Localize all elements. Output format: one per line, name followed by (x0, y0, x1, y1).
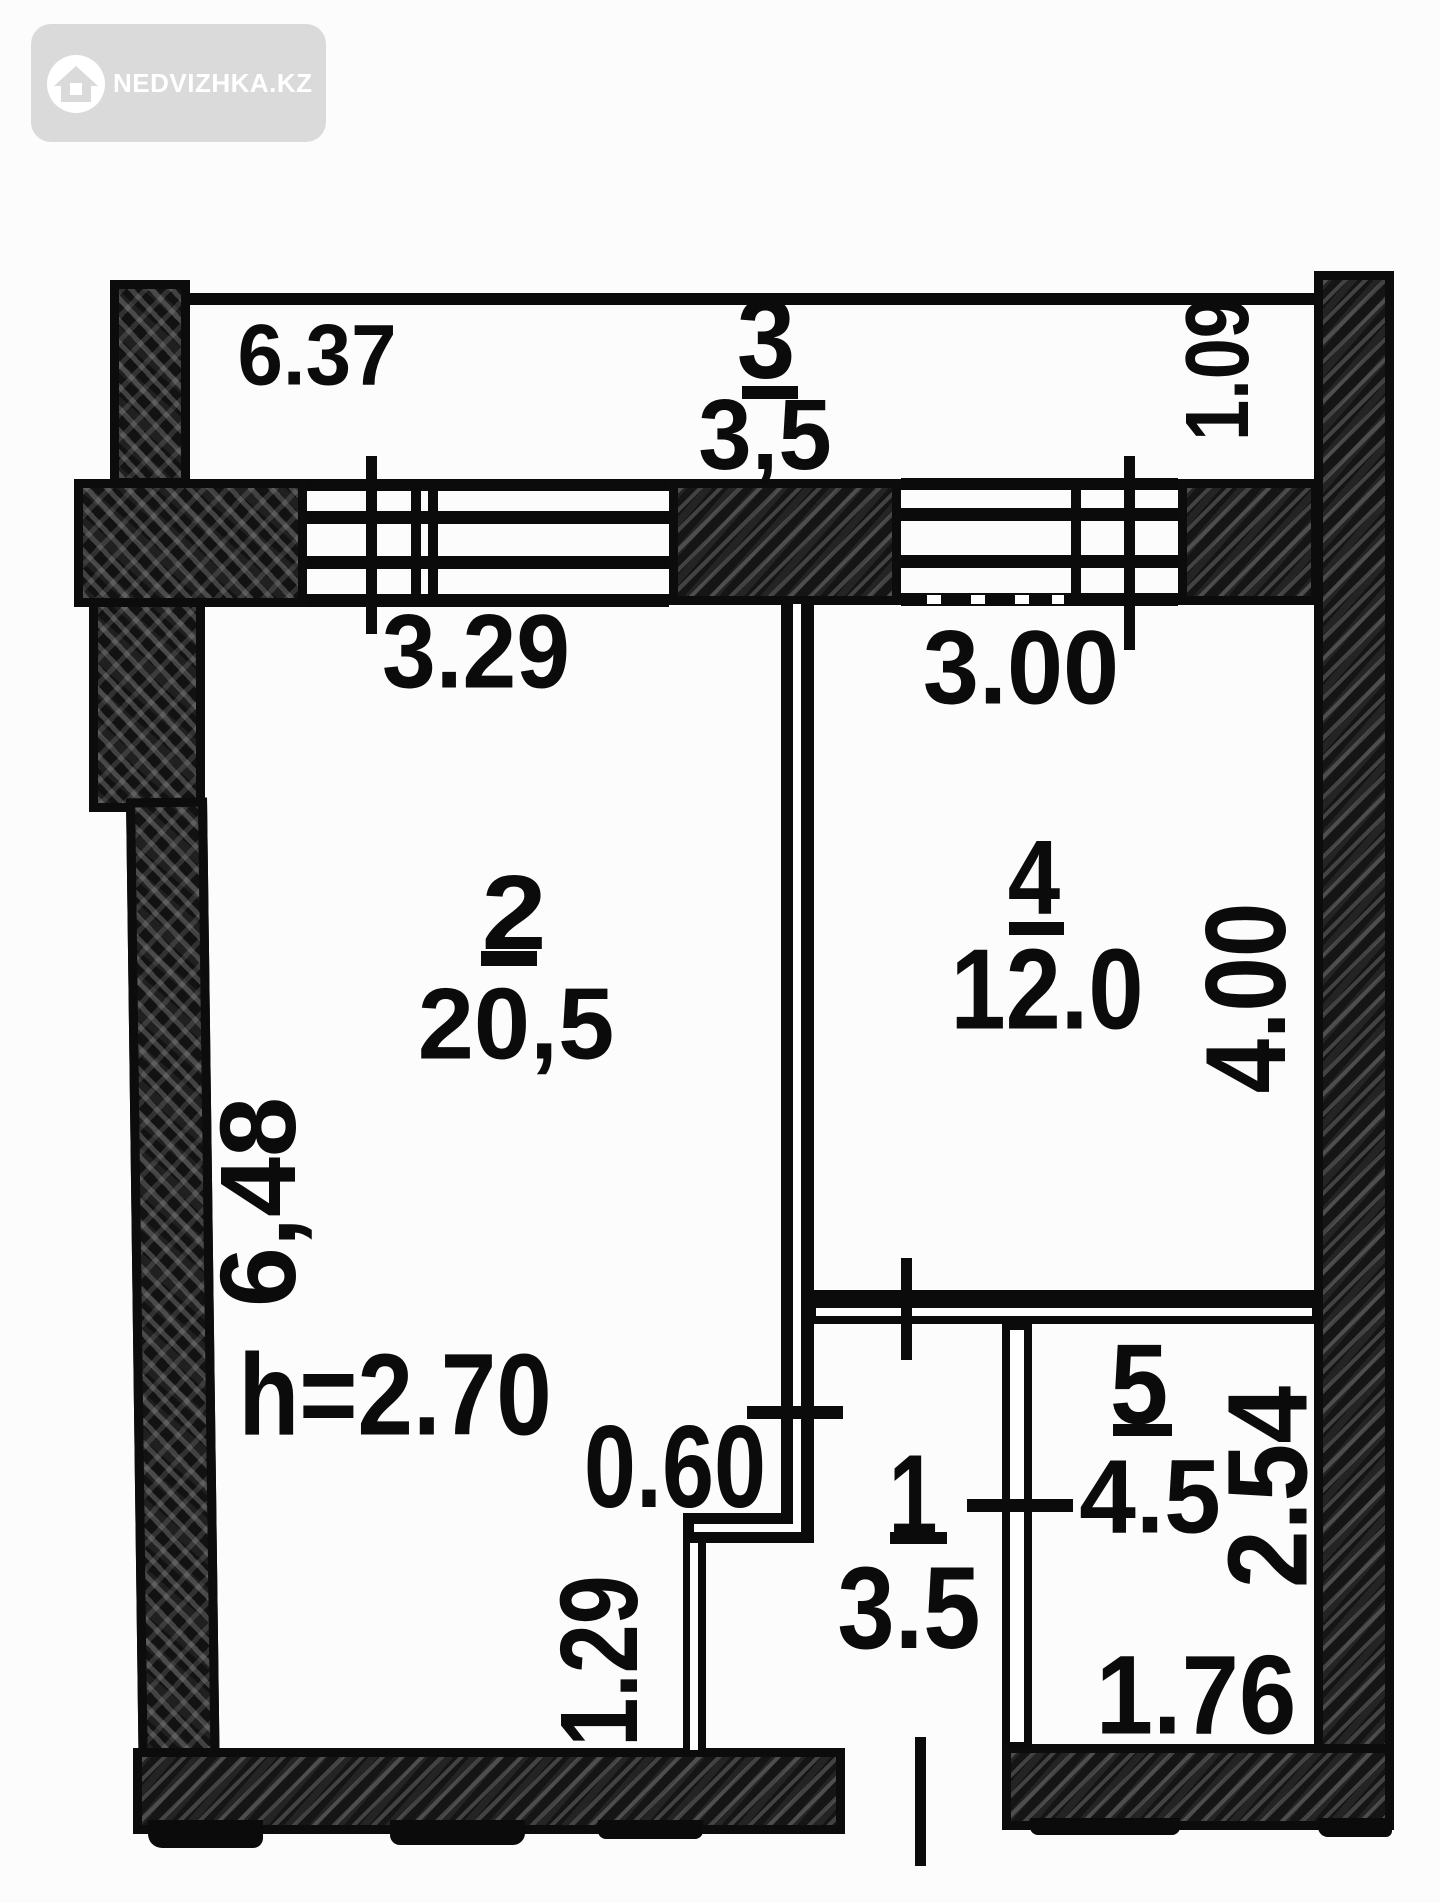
label 1.76 (1096, 1640, 1297, 1752)
window W1 lines (307, 479, 669, 491)
wall: band left block (74, 479, 307, 607)
wall: band right block (1178, 479, 1320, 605)
label 20,5 (418, 974, 615, 1075)
underline room 3 (742, 386, 798, 399)
label 3.29 (382, 599, 570, 704)
label 3.5 hall (837, 1549, 980, 1666)
wall: hall top (room4 | hall) (802, 1290, 1320, 1324)
dim tick 3.29 left (366, 456, 377, 634)
logo text (113, 68, 313, 99)
window W2 lines (901, 478, 1178, 490)
underline room 4 (1009, 922, 1064, 935)
label 0.60 (584, 1408, 766, 1525)
wall: left lower (after notch) (126, 797, 220, 1763)
label 2.54 (vertical) (1212, 1386, 1325, 1588)
label 1.29 (vertical) (545, 1575, 655, 1746)
label room 4 (1008, 825, 1060, 931)
wall: middle pier (669, 479, 901, 605)
tick on hall|room5 wall (967, 1499, 1073, 1512)
underline room 5 (1113, 1424, 1172, 1436)
tick 0.60 on divider (747, 1406, 843, 1419)
wall: bottom right segment (1002, 1744, 1394, 1830)
white corner join of step (793, 1513, 801, 1532)
wall: top-left column (110, 280, 190, 487)
door tick at entrance (915, 1737, 926, 1866)
wall: step vertical (683, 1543, 706, 1757)
label 4.00 (vertical) (1190, 903, 1304, 1094)
label room 1 (888, 1437, 937, 1553)
label 3,5 (698, 385, 831, 485)
label h=2.70 (238, 1336, 551, 1452)
label room 5 (1110, 1328, 1168, 1442)
label 3.00 (923, 615, 1119, 720)
underline room 1 (890, 1532, 947, 1544)
tick on hall top wall (901, 1258, 912, 1360)
label 1.09 (vertical) (1173, 297, 1263, 441)
label room 2 (482, 860, 547, 966)
ragged bottom edge bumps (148, 1820, 263, 1848)
label 4,5 (1079, 1444, 1221, 1549)
dim tick 3.00 right (1124, 456, 1135, 650)
label room 3 (737, 282, 795, 396)
wall: left upper (89, 598, 205, 812)
wall: hall | room5 divider (1002, 1324, 1032, 1748)
label 6,48 (vertical) (204, 1097, 312, 1307)
underline room 2 (481, 951, 537, 966)
label 12.0 (950, 933, 1143, 1047)
wall: bottom left segment (133, 1748, 845, 1834)
wall: divider room2 | room4/hall (781, 604, 814, 1513)
logo box (31, 24, 326, 142)
label 6.37 (237, 313, 396, 399)
wall: balcony parapet top line (185, 293, 1318, 305)
logo house icon (46, 54, 106, 114)
wall: step horizontal (0.60 niche) (683, 1513, 814, 1543)
wall: right outer wall (1314, 271, 1394, 1830)
